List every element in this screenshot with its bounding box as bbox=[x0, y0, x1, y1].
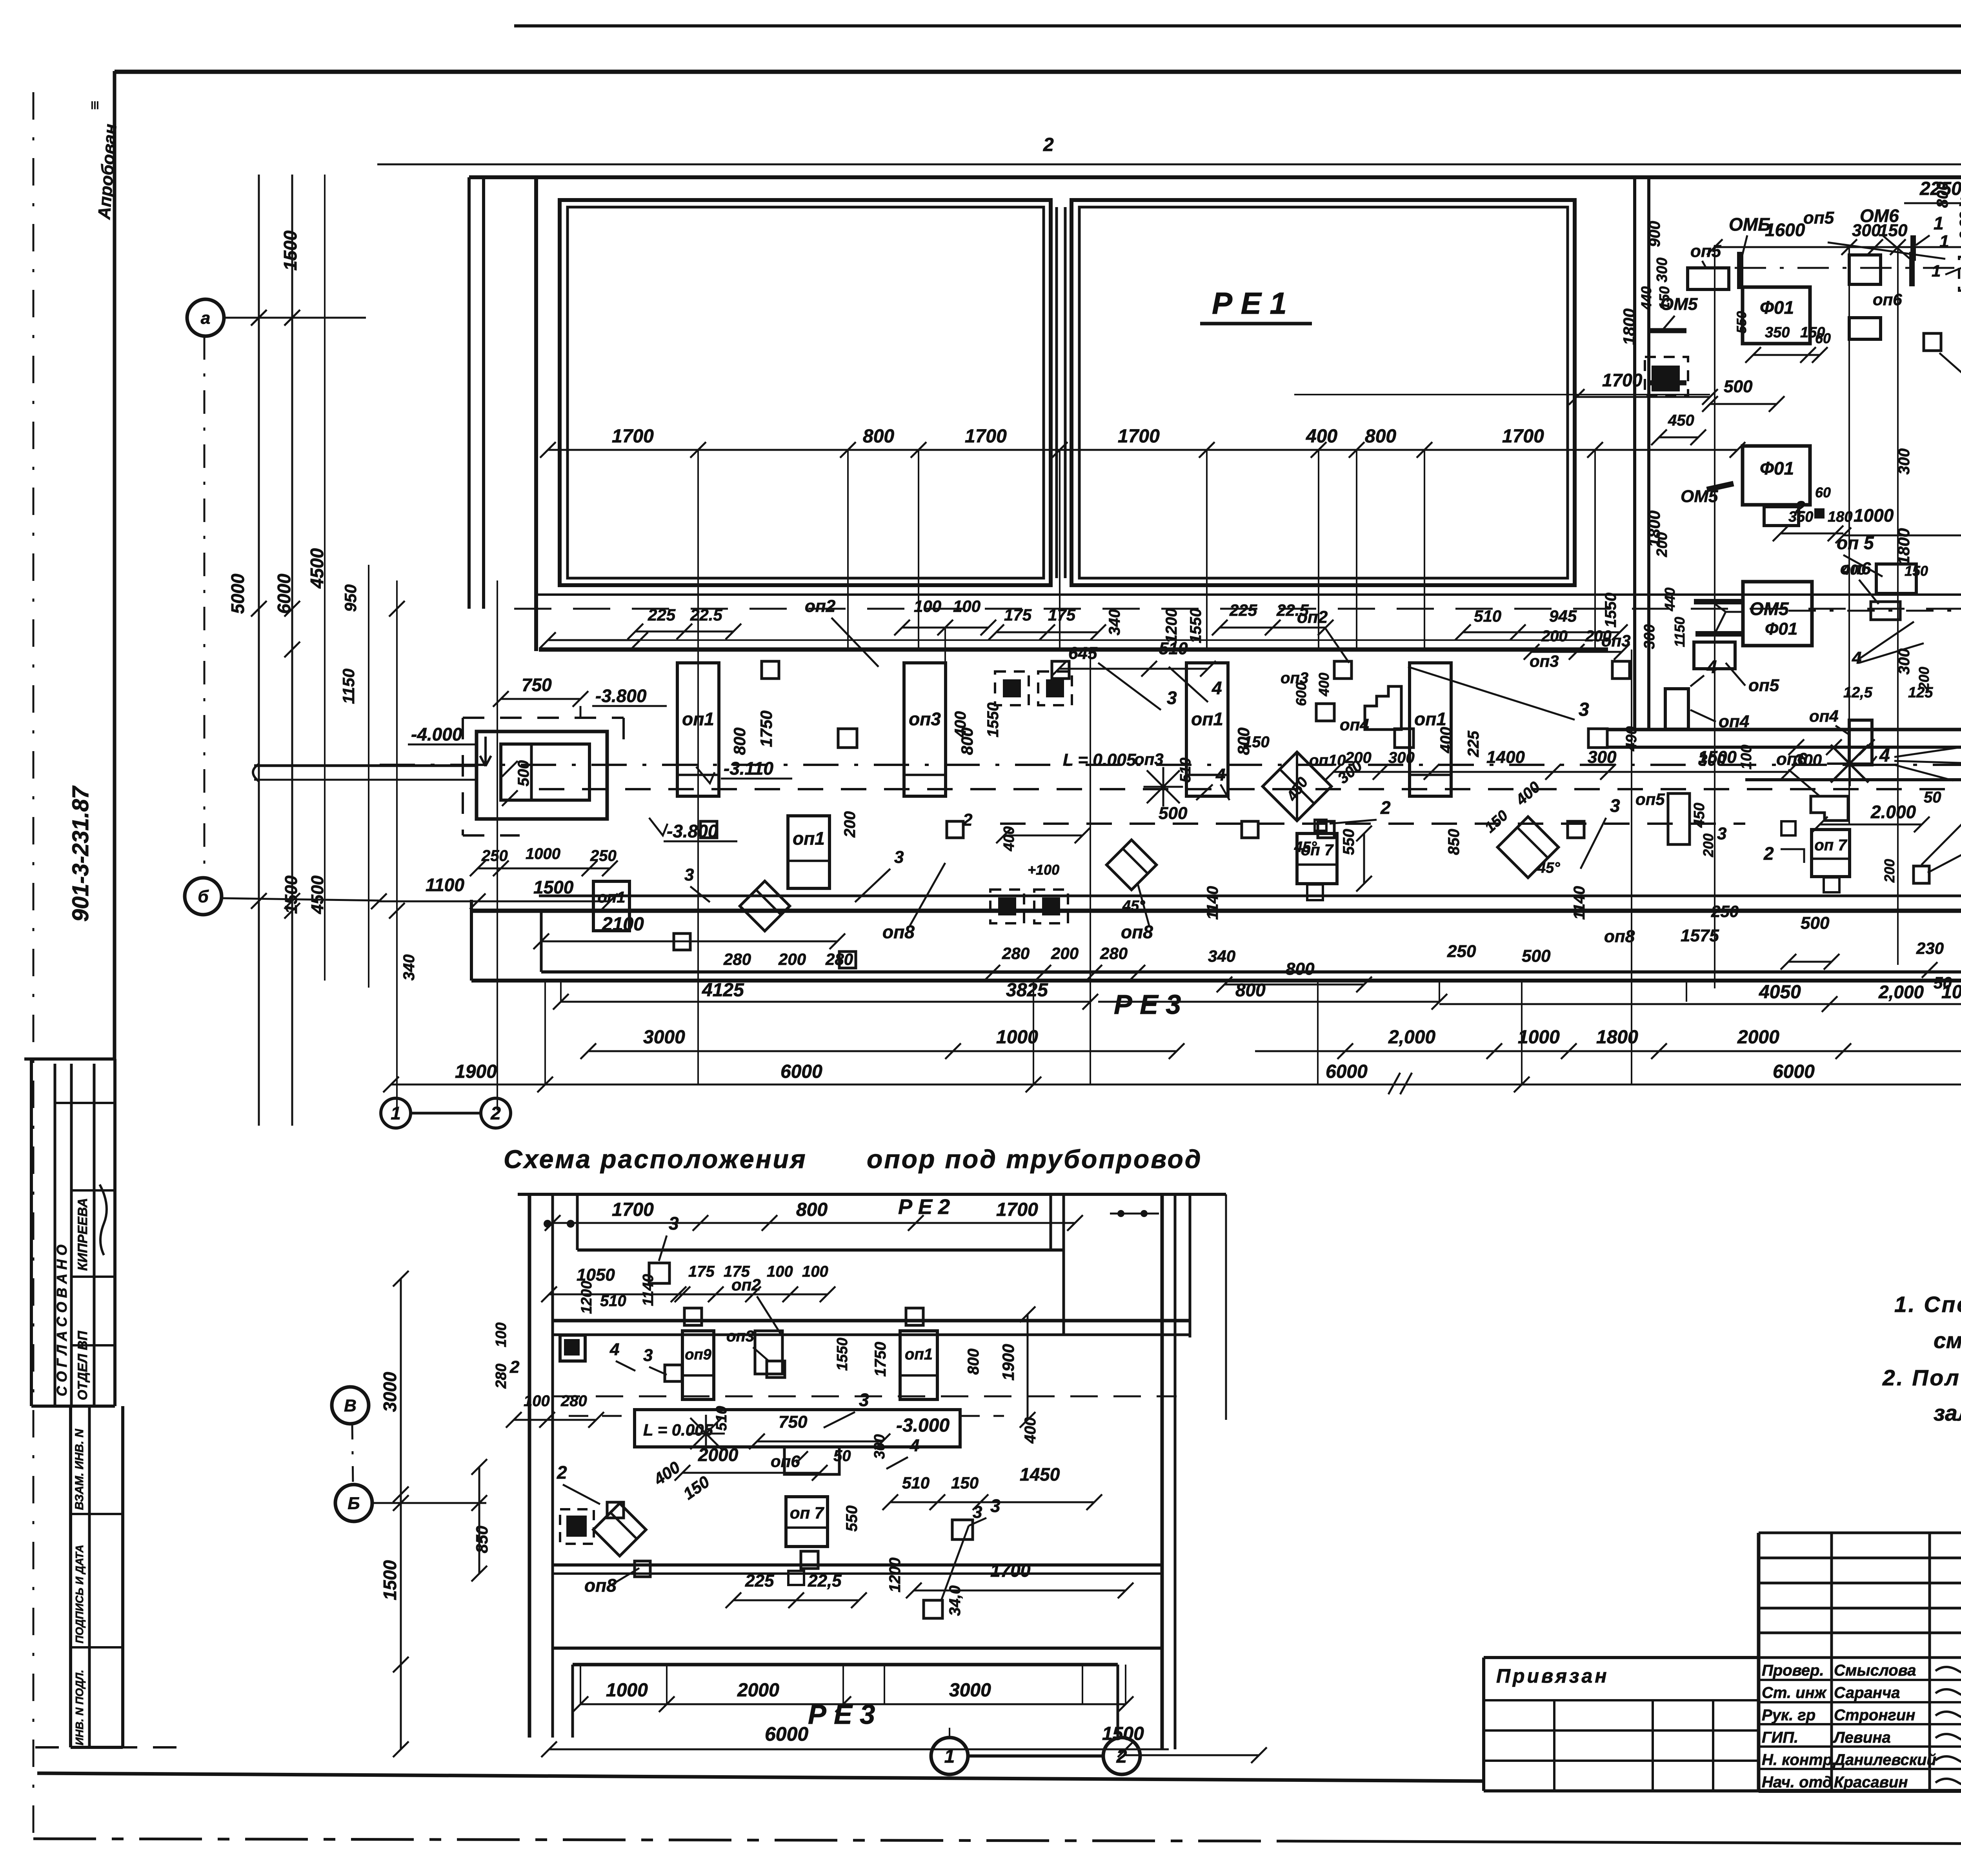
svg-text:3000: 3000 bbox=[949, 1680, 991, 1701]
small wall squares row1 bbox=[762, 661, 779, 679]
svg-text:100: 100 bbox=[1738, 745, 1755, 770]
svg-text:6000: 6000 bbox=[765, 1723, 808, 1745]
svg-text:225: 225 bbox=[1465, 731, 1482, 757]
basin dim verticals bbox=[697, 450, 699, 650]
support оп3 row1 x2305 bbox=[904, 663, 946, 796]
cluster thin vertical axes bbox=[1848, 247, 1850, 824]
crossed diamond mark bbox=[1262, 752, 1331, 821]
svg-text:50: 50 bbox=[1934, 973, 1952, 992]
dim 2100 in trench bbox=[541, 941, 837, 943]
left exterior wall pair bbox=[468, 177, 471, 609]
plan2 basin PE2 bottom edge bbox=[577, 1248, 1064, 1252]
svg-text:300: 300 bbox=[1388, 749, 1415, 766]
svg-text:Н. контр.: Н. контр. bbox=[1762, 1751, 1837, 1769]
svg-text:1000: 1000 bbox=[1518, 1027, 1560, 1048]
diagonal supports bbox=[740, 881, 789, 931]
svg-text:350: 350 bbox=[1788, 509, 1813, 525]
svg-text:1: 1 bbox=[1939, 232, 1949, 251]
OM5 block bbox=[1743, 582, 1812, 646]
plan2 wall band bbox=[553, 1319, 1190, 1323]
svg-text:оп1: оп1 bbox=[1191, 709, 1223, 729]
svg-text:Рук. гр: Рук. гр bbox=[1762, 1707, 1815, 1724]
cluster dash axis 2 bbox=[1788, 610, 1957, 612]
corridor top wall bbox=[539, 648, 1608, 652]
svg-text:оп 7: оп 7 bbox=[790, 1503, 824, 1522]
svg-text:1700: 1700 bbox=[612, 426, 654, 447]
bottom dim row C bbox=[391, 1084, 1961, 1086]
svg-text:Р Е 2: Р Е 2 bbox=[898, 1195, 950, 1219]
small squares lower bbox=[839, 952, 856, 968]
svg-text:оп1: оп1 bbox=[905, 1346, 933, 1363]
trench PE3 top edge bbox=[541, 970, 1961, 973]
svg-text:см.: см. bbox=[1934, 1328, 1961, 1353]
axis circle B left bbox=[185, 878, 222, 915]
basin dim row 1700 800 1700 1700 400 800 1700 bbox=[548, 449, 1737, 451]
small anchor squares right cluster bbox=[1924, 333, 1941, 351]
svg-text:350: 350 bbox=[1765, 324, 1790, 341]
small squares mid row1 bbox=[838, 729, 857, 748]
svg-text:175: 175 bbox=[1048, 606, 1076, 624]
svg-text:3000: 3000 bbox=[380, 1372, 400, 1412]
svg-text:180: 180 bbox=[1828, 509, 1852, 525]
OM5 block bold bars bbox=[1694, 599, 1743, 604]
svg-text:2000: 2000 bbox=[698, 1445, 739, 1465]
svg-text:750: 750 bbox=[779, 1412, 808, 1432]
svg-text:1000: 1000 bbox=[996, 1027, 1038, 1048]
op4 right box and label bbox=[1849, 720, 1872, 765]
svg-text:1: 1 bbox=[1934, 213, 1944, 233]
plan2 support op3 small bbox=[755, 1331, 782, 1374]
right section lower walls bbox=[1608, 728, 1961, 731]
svg-text:280: 280 bbox=[825, 950, 853, 968]
plan2 left wall outer bbox=[528, 1194, 531, 1738]
plan2 channel bbox=[635, 1410, 960, 1447]
pit dim 750 bbox=[501, 698, 580, 700]
support оп1 row1 x3025 bbox=[1186, 663, 1228, 796]
svg-text:оп8: оп8 bbox=[1604, 927, 1635, 946]
plan2 bottom dims 6000 1500 bbox=[549, 1749, 1169, 1750]
svg-text:340: 340 bbox=[400, 954, 418, 981]
svg-text:45°: 45° bbox=[1122, 898, 1145, 914]
svg-text:Р Е 3: Р Е 3 bbox=[808, 1699, 875, 1730]
svg-text:В: В bbox=[344, 1396, 357, 1415]
plan2 wall squares bbox=[684, 1308, 702, 1325]
svg-text:ВЗАМ. ИНВ. N: ВЗАМ. ИНВ. N bbox=[73, 1428, 86, 1510]
plan2 op8 small square bbox=[635, 1561, 650, 1577]
svg-text:22.5: 22.5 bbox=[690, 606, 722, 624]
op4 stairs shape bbox=[1365, 686, 1401, 730]
svg-text:45°: 45° bbox=[1294, 839, 1317, 855]
svg-text:б: б bbox=[198, 887, 209, 906]
svg-text:2: 2 bbox=[557, 1462, 567, 1483]
svg-text:250: 250 bbox=[481, 847, 508, 864]
svg-text:4500: 4500 bbox=[307, 548, 327, 589]
svg-text:1700: 1700 bbox=[1118, 426, 1160, 447]
cluster top dims 1600 300 150 bbox=[1715, 246, 1961, 248]
svg-text:500: 500 bbox=[1801, 913, 1830, 933]
svg-text:1500: 1500 bbox=[282, 875, 301, 914]
plan2 dashed axis bbox=[553, 1396, 1177, 1397]
svg-text:оп1: оп1 bbox=[597, 889, 625, 906]
svg-text:100: 100 bbox=[493, 1323, 509, 1347]
main building top wall bbox=[469, 175, 1961, 179]
svg-text:950: 950 bbox=[341, 584, 360, 612]
plan2 verticals for dims bbox=[580, 1665, 581, 1704]
svg-text:2: 2 bbox=[490, 1103, 501, 1123]
svg-text:500: 500 bbox=[1724, 377, 1753, 396]
svg-text:1: 1 bbox=[944, 1746, 955, 1767]
svg-text:оп1: оп1 bbox=[1414, 709, 1446, 729]
svg-text:4: 4 bbox=[1879, 745, 1890, 766]
svg-text:100: 100 bbox=[767, 1263, 793, 1280]
left dim chain lines bbox=[258, 175, 260, 1126]
main building left wall bbox=[534, 177, 538, 651]
support op4 boxes bbox=[1665, 689, 1688, 729]
plan2 support op7 bbox=[786, 1497, 828, 1547]
dim 800 below trench bbox=[1224, 984, 1364, 986]
svg-text:400: 400 bbox=[1022, 1417, 1039, 1444]
svg-text:3: 3 bbox=[990, 1496, 1001, 1516]
svg-text:400: 400 bbox=[952, 711, 969, 738]
svg-text:оп3: оп3 bbox=[1134, 750, 1164, 768]
svg-text:300: 300 bbox=[1588, 748, 1617, 767]
svg-text:оп5: оп5 bbox=[1748, 676, 1779, 695]
plan2 support op1 bbox=[900, 1331, 937, 1399]
svg-text:≡: ≡ bbox=[86, 101, 104, 110]
svg-text:450: 450 bbox=[1283, 774, 1311, 804]
pit arrow bbox=[480, 737, 491, 766]
svg-text:-3.000: -3.000 bbox=[896, 1415, 950, 1436]
svg-text:200: 200 bbox=[1654, 532, 1670, 557]
svg-text:3: 3 bbox=[1579, 699, 1589, 720]
cluster dim 2250 bbox=[1904, 202, 1961, 204]
svg-text:1: 1 bbox=[391, 1103, 401, 1123]
svg-text:1000: 1000 bbox=[526, 845, 560, 862]
svg-text:225: 225 bbox=[648, 606, 676, 624]
svg-text:L = 0.005: L = 0.005 bbox=[1063, 750, 1136, 770]
svg-text:100: 100 bbox=[1959, 193, 1961, 209]
svg-text:1700: 1700 bbox=[996, 1199, 1038, 1220]
plan2 right wall inner bbox=[1174, 1194, 1177, 1749]
axis vertical line 2 bbox=[497, 580, 498, 1110]
plan2 anchor dashed mid bbox=[560, 1509, 594, 1544]
svg-text:оп2: оп2 bbox=[731, 1276, 761, 1294]
svg-text:800: 800 bbox=[1934, 182, 1951, 208]
frame bottom inner border line bbox=[37, 1773, 1484, 1781]
svg-text:1140: 1140 bbox=[1204, 886, 1221, 920]
left pit inner bbox=[501, 744, 589, 800]
plan2 bottom dims 1000 2000 3000 bbox=[580, 1703, 1126, 1705]
svg-text:1000: 1000 bbox=[606, 1680, 648, 1701]
support op5 rect top bbox=[1688, 268, 1729, 289]
svg-text:4: 4 bbox=[609, 1340, 619, 1359]
left small hdim at 1632 bbox=[548, 639, 640, 641]
svg-text:Привязан: Привязан bbox=[1496, 1665, 1609, 1687]
support op5 bottom bbox=[1694, 642, 1735, 669]
sheet bottom outer border line bbox=[33, 1839, 1286, 1841]
svg-text:оп2: оп2 bbox=[1297, 608, 1328, 627]
svg-text:34,0: 34,0 bbox=[946, 1585, 964, 1616]
sheet top outer border line bbox=[514, 24, 1961, 27]
svg-text:оп6: оп6 bbox=[1873, 290, 1902, 309]
cluster dash axis horizontal bbox=[1735, 267, 1961, 269]
svg-text:Данилевский: Данилевский bbox=[1833, 1751, 1936, 1769]
svg-text:150: 150 bbox=[951, 1474, 979, 1492]
trench left step bbox=[470, 900, 473, 981]
dashed anchor top right bbox=[1959, 257, 1961, 291]
svg-text:1550: 1550 bbox=[834, 1337, 851, 1371]
svg-text:6000: 6000 bbox=[1326, 1061, 1368, 1082]
plan2 support square top with leader 3 bbox=[649, 1263, 669, 1283]
svg-text:Саранча: Саранча bbox=[1834, 1684, 1900, 1701]
pipe axis dashed lower right part bbox=[1000, 822, 1745, 825]
svg-text:1550: 1550 bbox=[1602, 593, 1619, 628]
svg-text:Смыслова: Смыслова bbox=[1834, 1662, 1916, 1679]
corridor dim baseline bbox=[549, 639, 1608, 641]
svg-text:1800: 1800 bbox=[1894, 528, 1913, 565]
support op7 row2 right bbox=[1812, 830, 1850, 877]
svg-text:3: 3 bbox=[684, 865, 694, 884]
support om6 rect no2 bbox=[1764, 507, 1799, 526]
svg-text:оп4: оп4 bbox=[1809, 707, 1839, 725]
svg-text:150: 150 bbox=[1905, 563, 1928, 579]
pit dims 250 1000 250 bbox=[478, 868, 610, 870]
tick 1 bold bbox=[1910, 235, 1916, 261]
svg-text:800: 800 bbox=[1286, 959, 1315, 979]
svg-text:1500: 1500 bbox=[280, 230, 300, 271]
svg-text:4: 4 bbox=[1706, 657, 1717, 677]
svg-text:800: 800 bbox=[863, 426, 894, 447]
svg-text:3: 3 bbox=[1610, 795, 1620, 816]
plan2 left wall inner bbox=[551, 1194, 554, 1738]
svg-text:Р Е 1: Р Е 1 bbox=[1212, 286, 1287, 320]
bold bar right bbox=[1909, 252, 1915, 286]
svg-text:оп3: оп3 bbox=[1601, 631, 1631, 650]
basin PE2-left inner wall bbox=[568, 207, 1044, 578]
left pit inlet pipe bbox=[254, 764, 477, 767]
stamp bottom dashed tail bbox=[35, 1746, 180, 1749]
svg-text:1750: 1750 bbox=[757, 711, 775, 747]
plan2 anchor square top bbox=[560, 1335, 585, 1361]
left pit dashed contour bbox=[463, 717, 624, 719]
svg-text:Нач. отд: Нач. отд bbox=[1762, 1774, 1832, 1791]
svg-text:280: 280 bbox=[1002, 944, 1030, 963]
svg-text:510: 510 bbox=[600, 1292, 626, 1310]
svg-text:300: 300 bbox=[1641, 624, 1658, 649]
stamp column lower box bbox=[69, 1406, 72, 1747]
svg-text:100: 100 bbox=[953, 597, 980, 615]
svg-text:225: 225 bbox=[1229, 601, 1257, 619]
svg-text:510: 510 bbox=[713, 1406, 730, 1431]
svg-text:100: 100 bbox=[524, 1392, 550, 1410]
svg-text:12,5: 12,5 bbox=[1843, 684, 1873, 701]
plan2 hatch in channel bbox=[690, 1418, 722, 1449]
svg-text:2: 2 bbox=[1116, 1746, 1127, 1767]
svg-text:60: 60 bbox=[1815, 330, 1831, 346]
svg-text:Ф01: Ф01 bbox=[1765, 619, 1797, 639]
svg-text:450: 450 bbox=[1691, 803, 1708, 828]
svg-text:400: 400 bbox=[1437, 727, 1455, 753]
plan2 dots marks bbox=[544, 1220, 551, 1228]
svg-text:45°: 45° bbox=[1537, 860, 1560, 876]
svg-text:400: 400 bbox=[1306, 426, 1337, 447]
svg-text:50: 50 bbox=[833, 1447, 851, 1465]
hatch marks on corridor right bbox=[1831, 745, 1868, 782]
svg-text:1000: 1000 bbox=[1854, 505, 1894, 526]
bottom dim row A bbox=[561, 1001, 1090, 1003]
svg-text:1550: 1550 bbox=[1187, 608, 1204, 643]
svg-text:оп6: оп6 bbox=[771, 1452, 800, 1470]
svg-text:4050: 4050 bbox=[1759, 982, 1801, 1003]
svg-text:150: 150 bbox=[1482, 807, 1511, 836]
frame top inner border line bbox=[115, 70, 1961, 74]
support op6 rect no1 bbox=[1849, 318, 1881, 339]
svg-text:5000: 5000 bbox=[227, 573, 248, 614]
svg-text:250: 250 bbox=[590, 847, 617, 864]
svg-text:1150: 1150 bbox=[339, 669, 358, 704]
svg-text:850: 850 bbox=[473, 1526, 491, 1553]
svg-text:ОМ6: ОМ6 bbox=[1860, 206, 1899, 226]
svg-text:340: 340 bbox=[1106, 609, 1123, 635]
svg-text:800: 800 bbox=[796, 1199, 828, 1220]
support om6 rect bbox=[1849, 255, 1881, 284]
axis circle A left bbox=[187, 299, 224, 336]
support op1 row2 mid bbox=[788, 816, 830, 888]
svg-text:ИНВ. N ПОДЛ.: ИНВ. N ПОДЛ. bbox=[73, 1670, 85, 1745]
corridor crossing verticals bbox=[697, 650, 699, 981]
wall between basins bbox=[1055, 207, 1058, 578]
svg-text:4: 4 bbox=[1215, 765, 1225, 784]
svg-text:3: 3 bbox=[894, 848, 904, 867]
svg-text:3: 3 bbox=[1717, 824, 1726, 843]
axis vertical line 1 bbox=[396, 580, 398, 1110]
svg-text:2,000: 2,000 bbox=[1878, 982, 1924, 1002]
plan2 top dim row 1700 800 PE2 1700 bbox=[553, 1222, 1075, 1224]
svg-text:1750: 1750 bbox=[872, 1342, 889, 1377]
basin PE1 inner wall bbox=[1079, 207, 1568, 578]
svg-text:6000: 6000 bbox=[274, 573, 294, 614]
plan2 diagonal support op8 bbox=[593, 1503, 646, 1556]
svg-text:3000: 3000 bbox=[643, 1027, 685, 1048]
filter box F01 no2 bbox=[1743, 446, 1810, 505]
svg-text:1700: 1700 bbox=[612, 1199, 654, 1220]
svg-text:1. Спецификацию: 1. Спецификацию bbox=[1894, 1292, 1961, 1317]
svg-text:2: 2 bbox=[1043, 135, 1054, 155]
svg-text:6000: 6000 bbox=[780, 1061, 822, 1082]
svg-text:300: 300 bbox=[1698, 751, 1726, 769]
plan2 op6 step bbox=[784, 1447, 839, 1474]
svg-text:оп5: оп5 bbox=[1690, 242, 1721, 261]
svg-text:1900: 1900 bbox=[999, 1344, 1017, 1381]
svg-text:100: 100 bbox=[914, 597, 941, 615]
svg-text:510: 510 bbox=[902, 1474, 930, 1492]
svg-text:6000: 6000 bbox=[1773, 1061, 1815, 1082]
titleblock small grid bbox=[1759, 1532, 1961, 1534]
plan2 right extension line bbox=[1225, 1194, 1227, 1420]
svg-text:Схема расположения: Схема расположения bbox=[504, 1145, 807, 1174]
svg-text:3: 3 bbox=[973, 1503, 982, 1522]
svg-text:оп2: оп2 bbox=[805, 597, 836, 616]
long thin line y1006 bbox=[1294, 394, 1710, 395]
OM5 bold bars left top bbox=[1649, 328, 1686, 333]
svg-text:Б: Б bbox=[347, 1494, 360, 1513]
svg-text:4500: 4500 bbox=[308, 875, 327, 914]
svg-text:-3.800: -3.800 bbox=[595, 686, 647, 706]
svg-text:300: 300 bbox=[1896, 648, 1913, 675]
svg-text:1: 1 bbox=[1932, 262, 1941, 280]
svg-text:1700: 1700 bbox=[990, 1560, 1031, 1581]
svg-text:510: 510 bbox=[1177, 758, 1194, 782]
svg-text:280: 280 bbox=[723, 950, 751, 968]
svg-text:1700: 1700 bbox=[1602, 370, 1643, 390]
svg-text:400: 400 bbox=[1842, 562, 1866, 578]
left pit outer bbox=[477, 731, 607, 819]
frame left border line bbox=[113, 71, 116, 1059]
svg-text:300: 300 bbox=[1654, 258, 1670, 282]
svg-text:2: 2 bbox=[962, 810, 973, 830]
svg-text:1200: 1200 bbox=[578, 1281, 595, 1314]
svg-text:900: 900 bbox=[1646, 221, 1663, 247]
svg-text:250: 250 bbox=[1447, 942, 1476, 961]
sheet fold dash-dot line left edge bbox=[33, 92, 35, 1836]
svg-text:300: 300 bbox=[871, 1434, 888, 1459]
corridor bottom wall thick bbox=[471, 909, 1961, 913]
svg-text:оп4: оп4 bbox=[1719, 712, 1749, 731]
svg-text:800: 800 bbox=[1235, 980, 1266, 1000]
svg-text:1700: 1700 bbox=[1502, 426, 1544, 447]
svg-text:2000: 2000 bbox=[737, 1680, 779, 1701]
svg-text:оп5: оп5 bbox=[1635, 790, 1665, 808]
support op6 bottom cluster bbox=[1811, 796, 1848, 821]
svg-text:Р Е 3: Р Е 3 bbox=[1114, 989, 1181, 1020]
svg-text:225: 225 bbox=[745, 1571, 774, 1590]
svg-text:1700: 1700 bbox=[965, 426, 1007, 447]
svg-text:340: 340 bbox=[1208, 947, 1235, 965]
pipe axis dash-dot upper bbox=[380, 764, 1961, 766]
stamp column upper box bbox=[24, 1057, 115, 1061]
svg-text:800: 800 bbox=[1365, 426, 1396, 447]
svg-text:1550: 1550 bbox=[984, 702, 1002, 737]
small squares on pipe axis row2 bbox=[700, 821, 717, 838]
svg-text:200: 200 bbox=[1541, 628, 1568, 645]
svg-text:4125: 4125 bbox=[702, 980, 744, 1001]
svg-text:опор под трубопровод: опор под трубопровод bbox=[867, 1145, 1202, 1174]
svg-text:оп4: оп4 bbox=[1340, 715, 1369, 734]
svg-text:175: 175 bbox=[688, 1263, 715, 1280]
svg-text:заложить: заложить bbox=[1934, 1401, 1961, 1426]
support оп1 row1 x3594 bbox=[1410, 663, 1451, 796]
svg-text:200: 200 bbox=[841, 811, 859, 838]
svg-text:ОМБ: ОМБ bbox=[1729, 214, 1771, 235]
svg-text:280: 280 bbox=[560, 1392, 587, 1410]
svg-text:150: 150 bbox=[680, 1472, 713, 1503]
svg-text:901-3-231.87: 901-3-231.87 bbox=[68, 785, 93, 922]
svg-text:Красавин: Красавин bbox=[1834, 1774, 1908, 1791]
axis circles 1 2 main plan bbox=[381, 1098, 411, 1128]
svg-text:оп 7: оп 7 bbox=[1814, 837, 1847, 854]
svg-text:С О Г Л А С О В А Н О: С О Г Л А С О В А Н О bbox=[54, 1245, 70, 1396]
svg-text:1200: 1200 bbox=[1163, 608, 1180, 643]
plan2 left vertical dims bbox=[400, 1279, 402, 1749]
plan2 channel dashes bbox=[569, 1415, 635, 1417]
svg-text:2: 2 bbox=[1380, 797, 1391, 818]
plan2 support op9 bbox=[682, 1331, 714, 1399]
dashed anchor left bbox=[1645, 357, 1688, 396]
svg-text:490: 490 bbox=[1623, 726, 1640, 751]
svg-text:оп1: оп1 bbox=[793, 828, 825, 848]
plan2 axis circles В Б bbox=[332, 1387, 369, 1424]
support op6 rect no2b bbox=[1871, 602, 1900, 620]
